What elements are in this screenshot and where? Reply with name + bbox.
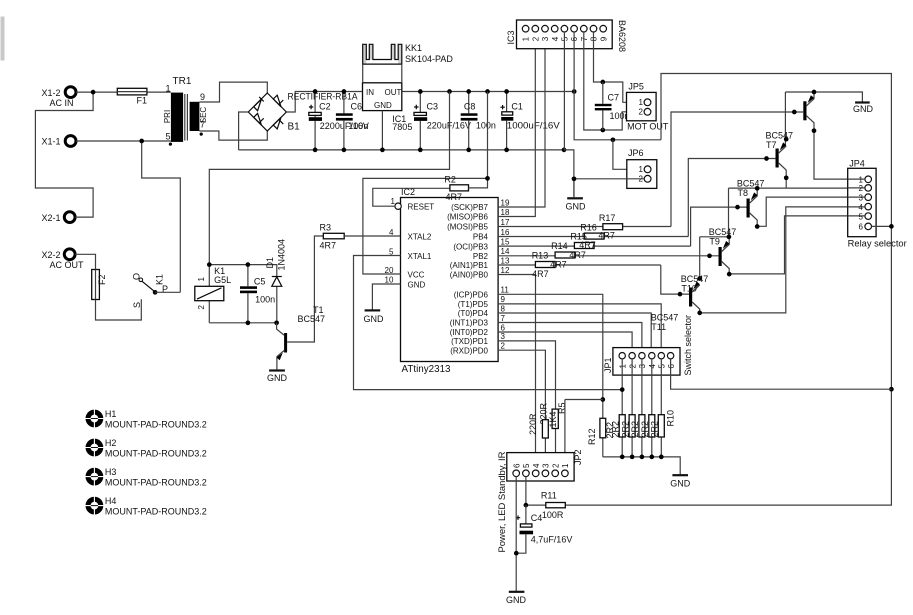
svg-text:4R7: 4R7 bbox=[320, 240, 337, 250]
svg-text:PB4: PB4 bbox=[473, 233, 489, 242]
svg-text:C7: C7 bbox=[608, 93, 620, 103]
svg-text:6: 6 bbox=[859, 223, 864, 232]
svg-text:G5L: G5L bbox=[214, 275, 231, 285]
svg-text:BC547: BC547 bbox=[737, 178, 765, 188]
svg-text:4: 4 bbox=[859, 203, 864, 212]
svg-text:B1: B1 bbox=[288, 122, 301, 133]
svg-text:H4: H4 bbox=[105, 496, 117, 506]
svg-text:2: 2 bbox=[859, 184, 864, 193]
svg-text:(INT0)PD2: (INT0)PD2 bbox=[450, 328, 489, 337]
svg-text:5: 5 bbox=[166, 132, 171, 142]
svg-text:(AIN0)PB0: (AIN0)PB0 bbox=[450, 271, 489, 280]
svg-text:IC3: IC3 bbox=[506, 30, 516, 44]
svg-text:H3: H3 bbox=[105, 467, 117, 477]
svg-text:2: 2 bbox=[531, 36, 540, 41]
svg-text:JP2: JP2 bbox=[573, 449, 583, 465]
svg-text:F2: F2 bbox=[97, 274, 107, 285]
svg-text:5: 5 bbox=[522, 463, 531, 468]
svg-text:AC IN: AC IN bbox=[50, 98, 74, 108]
svg-text:XTAL2: XTAL2 bbox=[408, 233, 432, 242]
svg-text:(T0)PD4: (T0)PD4 bbox=[458, 309, 489, 318]
svg-text:T11: T11 bbox=[651, 322, 666, 332]
svg-text:KK1: KK1 bbox=[405, 43, 422, 53]
svg-text:Relay selector: Relay selector bbox=[848, 239, 907, 249]
svg-text:Switch selector: Switch selector bbox=[683, 315, 693, 376]
svg-text:OUT: OUT bbox=[385, 88, 402, 97]
svg-text:GND: GND bbox=[267, 373, 288, 383]
svg-text:(ICP)PD6: (ICP)PD6 bbox=[454, 291, 489, 300]
svg-text:(INT1)PD3: (INT1)PD3 bbox=[450, 319, 489, 328]
svg-text:19: 19 bbox=[501, 198, 510, 207]
svg-text:2R2: 2R2 bbox=[640, 421, 650, 438]
svg-text:4R7: 4R7 bbox=[569, 250, 586, 260]
svg-text:20: 20 bbox=[385, 266, 394, 275]
svg-text:C6: C6 bbox=[351, 102, 363, 112]
svg-text:GND: GND bbox=[364, 314, 385, 324]
svg-text:P: P bbox=[162, 284, 168, 294]
svg-text:6: 6 bbox=[667, 364, 676, 369]
svg-text:(MOSI)PB5: (MOSI)PB5 bbox=[447, 223, 488, 232]
svg-text:BC547: BC547 bbox=[766, 130, 794, 140]
svg-text:T7: T7 bbox=[766, 140, 777, 150]
svg-text:C5: C5 bbox=[254, 276, 266, 286]
svg-text:MOT OUT: MOT OUT bbox=[627, 122, 669, 132]
svg-text:5: 5 bbox=[658, 364, 667, 369]
svg-text:(OCI)PB3: (OCI)PB3 bbox=[453, 242, 488, 251]
svg-text:(MISO)PB6: (MISO)PB6 bbox=[447, 213, 488, 222]
svg-text:16: 16 bbox=[501, 228, 510, 237]
svg-text:BC547: BC547 bbox=[298, 314, 326, 324]
svg-text:XTAL1: XTAL1 bbox=[408, 252, 432, 261]
svg-text:3: 3 bbox=[638, 364, 647, 369]
svg-text:X1-1: X1-1 bbox=[42, 137, 61, 147]
svg-text:RECTIFIER-RB1A: RECTIFIER-RB1A bbox=[288, 92, 358, 102]
svg-text:3: 3 bbox=[501, 332, 506, 341]
svg-text:4R7: 4R7 bbox=[446, 192, 463, 202]
svg-text:T9: T9 bbox=[709, 236, 720, 246]
svg-text:14: 14 bbox=[501, 247, 510, 256]
svg-text:2: 2 bbox=[628, 364, 637, 369]
svg-text:R11: R11 bbox=[541, 491, 557, 501]
svg-text:SEC: SEC bbox=[199, 107, 208, 124]
svg-text:15: 15 bbox=[501, 237, 510, 246]
svg-text:R3: R3 bbox=[320, 222, 332, 232]
svg-text:GND: GND bbox=[374, 101, 392, 110]
svg-text:GND: GND bbox=[408, 281, 426, 290]
svg-text:(TXD)PD1: (TXD)PD1 bbox=[451, 337, 488, 346]
svg-text:5: 5 bbox=[389, 248, 394, 257]
svg-text:JP1: JP1 bbox=[603, 357, 613, 373]
svg-text:C8: C8 bbox=[464, 102, 476, 112]
svg-text:3: 3 bbox=[859, 193, 864, 202]
svg-text:12: 12 bbox=[501, 266, 510, 275]
svg-text:4R7: 4R7 bbox=[550, 260, 567, 270]
svg-text:1: 1 bbox=[618, 364, 627, 369]
svg-text:GND: GND bbox=[853, 104, 874, 114]
svg-text:11: 11 bbox=[501, 286, 510, 295]
svg-text:1: 1 bbox=[561, 463, 570, 468]
svg-text:1N4004: 1N4004 bbox=[277, 239, 287, 271]
svg-text:C1: C1 bbox=[511, 102, 523, 112]
svg-text:GND: GND bbox=[670, 479, 691, 489]
svg-text:7805: 7805 bbox=[392, 122, 412, 132]
svg-text:R12: R12 bbox=[587, 428, 597, 445]
svg-text:1: 1 bbox=[391, 197, 396, 206]
svg-text:4R7: 4R7 bbox=[532, 269, 549, 279]
svg-text:4: 4 bbox=[551, 36, 560, 41]
svg-text:AC OUT: AC OUT bbox=[50, 260, 85, 270]
svg-text:100R: 100R bbox=[542, 510, 564, 520]
svg-text:1: 1 bbox=[197, 277, 206, 282]
svg-text:9: 9 bbox=[501, 295, 506, 304]
svg-text:BC547: BC547 bbox=[709, 227, 737, 237]
svg-text:10: 10 bbox=[385, 276, 394, 285]
svg-text:13: 13 bbox=[501, 256, 510, 265]
svg-text:(SCK)PB7: (SCK)PB7 bbox=[451, 203, 488, 212]
svg-text:3: 3 bbox=[541, 36, 550, 41]
svg-text:2R2: 2R2 bbox=[611, 421, 621, 438]
svg-text:TR1: TR1 bbox=[173, 76, 192, 87]
svg-text:1000uF/16V: 1000uF/16V bbox=[507, 121, 560, 131]
svg-text:6: 6 bbox=[512, 463, 521, 468]
svg-text:S: S bbox=[132, 302, 142, 308]
svg-text:JP6: JP6 bbox=[628, 148, 644, 158]
svg-text:VCC: VCC bbox=[408, 271, 425, 280]
svg-text:2: 2 bbox=[197, 305, 206, 310]
svg-text:4,7uF/16V: 4,7uF/16V bbox=[531, 535, 573, 545]
svg-text:9: 9 bbox=[599, 36, 608, 41]
svg-text:2: 2 bbox=[639, 108, 644, 117]
svg-text:H1: H1 bbox=[105, 409, 117, 419]
svg-text:18: 18 bbox=[501, 208, 510, 217]
svg-text:O: O bbox=[132, 273, 142, 280]
svg-text:C2: C2 bbox=[319, 102, 331, 112]
svg-text:H2: H2 bbox=[105, 438, 117, 448]
svg-text:4R7: 4R7 bbox=[598, 231, 615, 241]
svg-text:MOUNT-PAD-ROUND3.2: MOUNT-PAD-ROUND3.2 bbox=[105, 449, 207, 459]
svg-text:T10: T10 bbox=[681, 283, 697, 293]
svg-text:2: 2 bbox=[501, 342, 506, 351]
svg-text:4R7: 4R7 bbox=[579, 240, 596, 250]
svg-text:BA6208: BA6208 bbox=[617, 20, 627, 52]
svg-text:F1: F1 bbox=[137, 96, 148, 106]
svg-text:3: 3 bbox=[542, 463, 551, 468]
svg-text:220R: 220R bbox=[528, 413, 538, 435]
svg-text:X2-1: X2-1 bbox=[42, 213, 61, 223]
svg-text:(T1)PD5: (T1)PD5 bbox=[458, 300, 489, 309]
svg-text:R17: R17 bbox=[599, 213, 616, 223]
svg-text:MOUNT-PAD-ROUND3.2: MOUNT-PAD-ROUND3.2 bbox=[105, 507, 207, 517]
svg-text:R14: R14 bbox=[551, 241, 568, 251]
svg-text:IC2: IC2 bbox=[401, 187, 415, 197]
svg-text:MOUNT-PAD-ROUND3.2: MOUNT-PAD-ROUND3.2 bbox=[105, 478, 207, 488]
svg-text:7: 7 bbox=[580, 36, 589, 41]
svg-text:IN: IN bbox=[366, 88, 374, 97]
svg-text:MOUNT-PAD-ROUND3.2: MOUNT-PAD-ROUND3.2 bbox=[105, 420, 207, 430]
svg-text:X1-2: X1-2 bbox=[42, 88, 61, 98]
svg-text:2R2: 2R2 bbox=[650, 421, 660, 438]
svg-text:PRI: PRI bbox=[163, 110, 172, 123]
svg-text:SK104-PAD: SK104-PAD bbox=[405, 54, 453, 64]
svg-text:4: 4 bbox=[648, 364, 657, 369]
svg-text:D1: D1 bbox=[265, 257, 275, 269]
svg-text:C4: C4 bbox=[531, 513, 543, 523]
svg-text:X2-2: X2-2 bbox=[42, 250, 61, 260]
svg-text:(RXD)PD0: (RXD)PD0 bbox=[450, 346, 488, 355]
svg-text:GND: GND bbox=[566, 201, 587, 211]
svg-text:C3: C3 bbox=[427, 102, 439, 112]
svg-text:8: 8 bbox=[501, 304, 506, 313]
svg-text:6: 6 bbox=[501, 323, 506, 332]
svg-text:PB2: PB2 bbox=[473, 252, 489, 261]
svg-text:BC547: BC547 bbox=[651, 313, 679, 323]
svg-text:R10: R10 bbox=[666, 410, 676, 427]
svg-text:9: 9 bbox=[200, 92, 205, 102]
svg-text:2: 2 bbox=[551, 463, 560, 468]
svg-text:R13: R13 bbox=[532, 251, 549, 261]
svg-text:5: 5 bbox=[859, 212, 864, 221]
svg-text:1: 1 bbox=[639, 165, 644, 174]
svg-text:6: 6 bbox=[570, 36, 579, 41]
svg-text:1: 1 bbox=[522, 36, 531, 41]
svg-text:Power, LED Standby, IR: Power, LED Standby, IR bbox=[497, 451, 507, 553]
svg-text:(AIN1)PB1: (AIN1)PB1 bbox=[450, 261, 489, 270]
svg-text:100n: 100n bbox=[476, 121, 496, 131]
svg-text:1: 1 bbox=[639, 98, 644, 107]
svg-text:RESET: RESET bbox=[408, 203, 435, 212]
svg-text:R2: R2 bbox=[444, 175, 456, 185]
svg-text:JP4: JP4 bbox=[849, 159, 865, 169]
svg-text:17: 17 bbox=[501, 218, 510, 227]
svg-text:4: 4 bbox=[389, 228, 394, 237]
svg-text:220uF/16V: 220uF/16V bbox=[427, 121, 471, 131]
svg-text:ATtiny2313: ATtiny2313 bbox=[402, 364, 451, 375]
svg-text:4: 4 bbox=[532, 463, 541, 468]
svg-text:7: 7 bbox=[501, 314, 506, 323]
svg-text:BC547: BC547 bbox=[681, 274, 709, 284]
svg-text:2R2: 2R2 bbox=[630, 421, 640, 438]
svg-text:T8: T8 bbox=[738, 188, 749, 198]
svg-text:GND: GND bbox=[506, 595, 527, 605]
svg-text:1: 1 bbox=[166, 84, 171, 94]
svg-text:100n: 100n bbox=[348, 121, 368, 131]
svg-text:2R2: 2R2 bbox=[620, 421, 630, 438]
svg-text:JP5: JP5 bbox=[628, 82, 644, 92]
svg-text:100n: 100n bbox=[255, 295, 275, 305]
